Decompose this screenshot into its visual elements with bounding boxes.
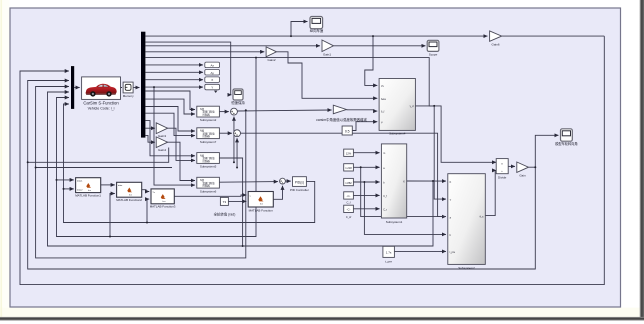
goto tag Ax [205, 62, 220, 68]
wire controller1 out to sum1 [219, 111, 228, 113]
wire MATLAB Function2 out to 3 [142, 190, 150, 192]
demux D1 [141, 32, 145, 138]
svg-text:t_pre: t_pre [449, 251, 455, 254]
wire demux to goto X [145, 79, 203, 81]
svg-text:γ_d: γ_d [410, 105, 415, 108]
wire feedback loop6 y225 PID output [64, 104, 315, 223]
svg-text:控制器: 控制器 [203, 113, 211, 117]
wire demux to goto Ay [145, 71, 203, 73]
wire CarSim to Memory [121, 87, 123, 89]
wire feedback loop4 y246 [48, 92, 434, 246]
gain Gain4 [156, 137, 167, 152]
wire T3 to MATLAB Function4 [228, 200, 246, 202]
gain angle conversion [316, 105, 367, 122]
wire riser to MATLAB Function3 in2 [147, 199, 149, 222]
controller subsystem B2 [197, 128, 220, 144]
sum S2 [234, 130, 241, 137]
wire demux out3 to Gain1 [145, 45, 320, 47]
wire demux out1 long to Gain6 [145, 35, 487, 37]
wire Divide out to Gain [508, 165, 515, 167]
svg-text:MATLAB Function: MATLAB Function [249, 209, 273, 213]
wire demux out4 to Gain2 [145, 51, 264, 53]
wire Subsystem2 theta out up to Divide in2 [485, 170, 496, 215]
svg-text:carsim中角度值以弧度故需做增减: carsim中角度值以弧度故需做增减 [316, 117, 367, 122]
wire feedback loop5 y236.5 [57, 58, 257, 237]
constant t_pre [383, 246, 395, 263]
wire MATLAB Function3 out to 4 [174, 195, 246, 196]
wire const3 to Subsystem1 [353, 181, 379, 183]
wire controller3 out down [219, 158, 242, 246]
wire Memory to demux [133, 87, 139, 89]
window bottom edge shadow [0, 0, 1, 1]
wire to wheel angle scope [535, 135, 558, 167]
wire sum2 feedback from bottom [236, 138, 238, 167]
svg-text:-C-: -C- [347, 194, 351, 198]
svg-text:Gain1: Gain1 [323, 53, 331, 57]
svg-text:MATLAB Function1: MATLAB Function1 [75, 193, 101, 197]
wire const2 to Subsystem1 [353, 166, 379, 168]
svg-text:Subsystem7: Subsystem7 [200, 140, 217, 144]
gain Gain [517, 162, 529, 178]
goto tag X [205, 77, 220, 83]
svg-text:MATLAB Function2: MATLAB Function2 [116, 198, 142, 202]
wire demux to Gain4 [145, 135, 155, 142]
svg-text:Scope: Scope [429, 52, 438, 56]
constant C_f [344, 192, 354, 205]
divide block [496, 159, 508, 180]
wire sum1 out to angle gain [237, 110, 331, 111]
MATLAB Function3 [150, 189, 176, 209]
wire Gain out junction [529, 166, 536, 168]
gain Gain1 [322, 40, 334, 57]
svg-text:Memory: Memory [123, 94, 134, 98]
svg-text:控制器: 控制器 [203, 134, 211, 138]
svg-text:Subsystem4: Subsystem4 [389, 131, 406, 135]
svg-text:PID Controller: PID Controller [290, 188, 309, 192]
wire Gain6 out right [502, 35, 605, 37]
svg-text:Subsystem2: Subsystem2 [200, 118, 217, 122]
subsystem Subsystem1 [381, 144, 406, 224]
svg-text:模型车轮转向角: 模型车轮转向角 [555, 141, 577, 146]
svg-text:12%: 12% [346, 152, 352, 156]
wire Subsystem1 out to Subsystem2 in1 [407, 180, 446, 182]
controller subsystem B3 [197, 153, 220, 169]
wire MATLAB Function4 out to PID sum bottom [273, 186, 282, 200]
gain Gain2 [266, 47, 276, 62]
svg-text:Ax: Ax [210, 63, 214, 67]
wire sum2 out to Subsystem2 in3 [241, 133, 447, 216]
Memory block [123, 82, 134, 98]
svg-text:控制器: 控制器 [203, 159, 211, 163]
svg-text:C_f: C_f [346, 201, 350, 205]
svg-text:Gain: Gain [519, 174, 526, 178]
subsystem Subsystem2 [448, 174, 486, 271]
svg-text:MATLAB Function3: MATLAB Function3 [150, 205, 176, 209]
svg-text:PID(s): PID(s) [295, 180, 304, 184]
wire demux to controller2 in1 [145, 107, 195, 132]
wire controller4 out to PID sum [219, 181, 278, 184]
gain Gain3 [156, 123, 167, 138]
svg-text:C_sf: C_sf [346, 215, 352, 219]
svg-text:Gain6: Gain6 [491, 42, 499, 46]
wire feedback loop3 y258 [36, 87, 246, 258]
wire controller2 out to sum2 [219, 132, 232, 134]
svg-text:-C-: -C- [347, 208, 351, 212]
page margin strips [0, 0, 9, 317]
wire MATLAB Function1 out to 2 [101, 184, 115, 186]
wire demux out5 to Divide in1 [145, 58, 496, 163]
wire riser to MATLAB Function2 in2 [110, 194, 115, 237]
constant 0.5 [342, 126, 352, 135]
window right edge shadow [0, 0, 1, 1]
wire Subsystem4 out to Subsystem2 in2 [415, 106, 446, 199]
wire demux to controller2 in2 [145, 113, 195, 135]
wire demux to goto Y [145, 86, 203, 88]
wire Gain3 out to controller3 in2 [167, 128, 195, 160]
wire demux to controller1 in1 [145, 91, 195, 110]
wire demux to controller1 in2 [145, 99, 195, 114]
wire branch down to Subsystem4 In1 [365, 36, 378, 85]
wire const3 tap to Subsystem2 in4 [364, 182, 446, 234]
svg-text:1.7s: 1.7s [386, 251, 392, 255]
svg-text:1.218: 1.218 [345, 166, 352, 170]
svg-text:X: X [211, 78, 213, 82]
svg-text:T3: T3 [223, 200, 227, 204]
wire mux to CarSim [74, 87, 80, 89]
wire tap to MATLAB Function1 in2 [64, 188, 74, 190]
MATLAB Function2 [116, 182, 142, 202]
wire feedback loop1 y282 [20, 36, 604, 285]
svg-text:data2: data2 [77, 188, 83, 191]
sum S3 PID [280, 178, 286, 184]
scope 模型车轮转向角 [555, 129, 577, 146]
svg-text:C_r: C_r [383, 208, 387, 211]
goto tag Y [205, 84, 220, 93]
sum S1 [231, 108, 238, 115]
constant C_sf [344, 205, 354, 219]
svg-text:控制器: 控制器 [203, 184, 211, 188]
wire crossing horizontal B [36, 167, 172, 169]
MATLAB Function4 [248, 192, 273, 213]
svg-text:Divide: Divide [498, 176, 507, 180]
wire crossing horizontal lower-left [28, 148, 169, 163]
svg-text:data1: data1 [77, 180, 83, 183]
svg-text:Gain4: Gain4 [158, 148, 166, 152]
svg-text:t_pre: t_pre [385, 259, 392, 263]
wire demux to goto Ax [145, 64, 203, 66]
wire tap to controller4 in2 [154, 87, 195, 185]
controller subsystem B1 [197, 106, 220, 122]
mux M1 [71, 66, 74, 109]
wire feedback loop2 y270 [28, 81, 536, 270]
svg-text:Subsystem1: Subsystem1 [386, 220, 403, 224]
wire Gain2 stepped to Subsystem4 in2 [277, 52, 378, 99]
svg-text:Tz: Tz [152, 192, 154, 194]
svg-text:Subsystem2: Subsystem2 [458, 266, 475, 270]
scope Scope [427, 40, 439, 56]
wire const 0.5 to Subsystem4 in4 [352, 122, 377, 131]
svg-text:Vehicle Code: i_i: Vehicle Code: i_i [88, 107, 115, 111]
wire demux out2 to hold display [145, 42, 231, 95]
goto tag Ay [205, 70, 220, 76]
svg-text:Y: Y [211, 86, 213, 90]
constant 1.218 [344, 164, 354, 171]
wire const1 to Subsystem1 [353, 152, 379, 154]
svg-text:Gain3: Gain3 [158, 134, 166, 138]
constant T3 [214, 197, 236, 216]
svg-text:CarSim S-Function: CarSim S-Function [83, 101, 119, 106]
wire const2 tap to Subsystem2 in3 [361, 167, 446, 216]
wire Gain4 out to controller4 in1 [167, 142, 195, 180]
wire PID sum to PID [285, 180, 290, 182]
wire tap to MATLAB Function1 in1 [57, 179, 74, 181]
wire branch up to speed scope [291, 22, 308, 37]
wire const4 to Subsystem1 [353, 194, 379, 196]
svg-text:纵向车速: 纵向车速 [310, 28, 324, 33]
svg-text:m: m [383, 152, 385, 155]
wire const5 to Subsystem1 [353, 208, 379, 210]
gain Gain6 top right [490, 31, 502, 47]
svg-text:恒速保持: 恒速保持 [231, 100, 245, 105]
svg-text:1.882: 1.882 [345, 181, 352, 185]
constant 1.882 [344, 178, 354, 185]
controller subsystem B4 [197, 177, 220, 193]
subsystem Subsystem4 [379, 79, 415, 136]
svg-text:Subsystem5: Subsystem5 [200, 165, 217, 169]
display 恒速保持 [231, 89, 245, 105]
svg-text:Subsystem6: Subsystem6 [200, 189, 217, 193]
MATLAB Function1 [75, 178, 101, 198]
svg-text:beta: beta [381, 98, 386, 101]
scope 纵向车速 [310, 17, 324, 34]
svg-text:Gain2: Gain2 [267, 58, 275, 62]
wire demux to controller3 in1 [145, 121, 195, 156]
svg-text:δ_f: δ_f [381, 111, 385, 114]
constant 12% [344, 149, 354, 156]
svg-text:全轮转角 (rad): 全轮转角 (rad) [214, 212, 236, 217]
PID Controller [290, 177, 309, 192]
wire angle gain to Subsystem4 in3 [346, 110, 377, 111]
svg-text:C_f: C_f [383, 195, 387, 198]
CarSim S-Function block [82, 77, 121, 111]
wire demux to Gain3 [145, 127, 155, 129]
wire Gain1 to Scope [334, 45, 426, 47]
svg-text:0.5: 0.5 [345, 129, 350, 133]
wire sum1 feedback from bottom [233, 117, 235, 163]
wire t_pre const to Subsystem2 in5 [394, 250, 446, 252]
svg-text:Ay: Ay [210, 71, 214, 75]
